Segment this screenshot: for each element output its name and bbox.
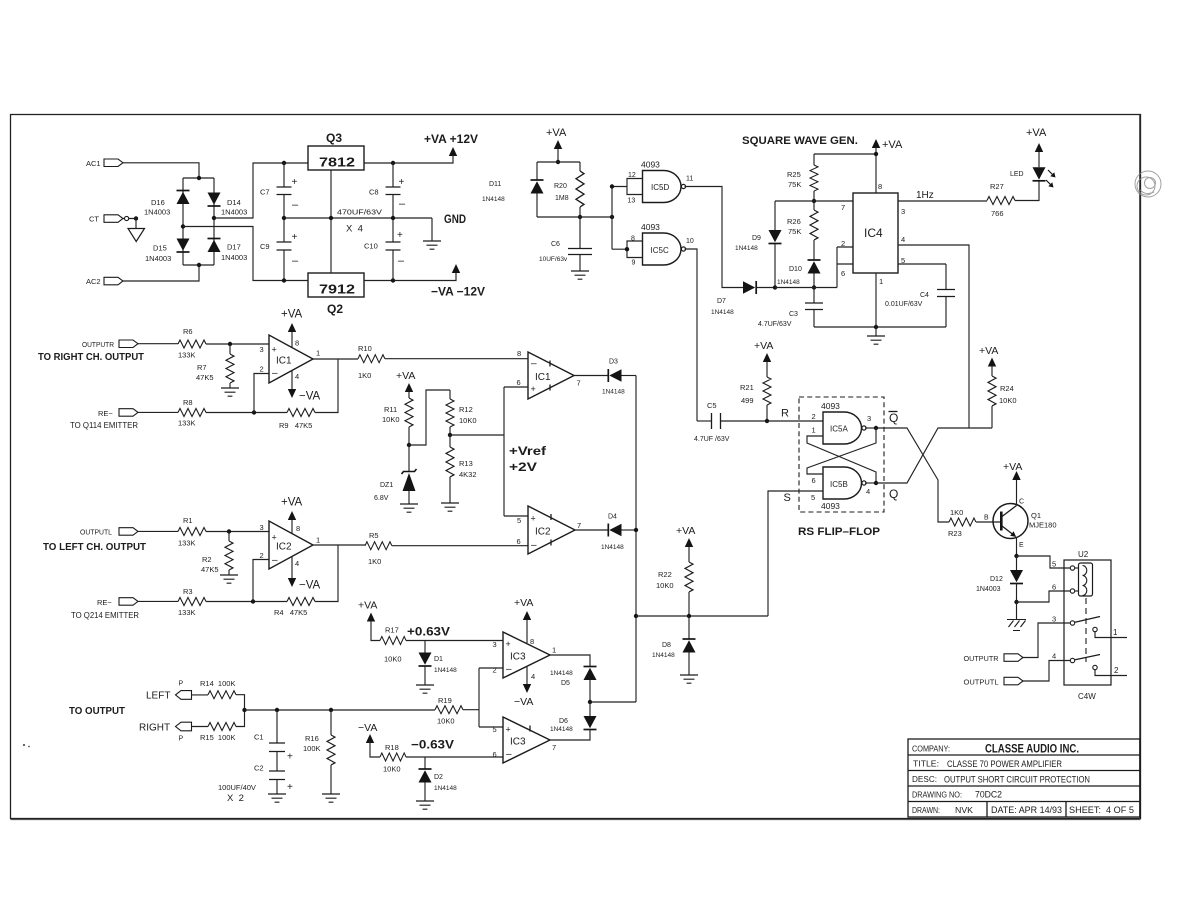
ground D1 <box>416 685 434 693</box>
svg-text:10K0: 10K0 <box>437 717 455 726</box>
svg-text:10K0: 10K0 <box>382 415 400 424</box>
svg-text:D16: D16 <box>151 198 165 207</box>
svg-text:2: 2 <box>812 412 816 421</box>
svg-text:10K0: 10K0 <box>999 396 1017 405</box>
node pin2 branch <box>252 410 256 414</box>
diode D4 1N4148 <box>575 514 636 552</box>
node C8 top <box>391 161 395 165</box>
resistor R17 10K0 <box>380 626 406 664</box>
diode D11 1N4148 <box>482 162 544 217</box>
power -VA (R18) <box>358 722 380 757</box>
resistor R7 47K5 <box>196 344 234 388</box>
svg-text:1N4003: 1N4003 <box>221 208 247 217</box>
svg-text:IC3: IC3 <box>510 652 526 663</box>
capacitor C1 <box>254 710 293 763</box>
svg-text:−VA: −VA <box>299 391 321 403</box>
node mid rail C8 <box>391 216 395 220</box>
svg-text:R5: R5 <box>369 531 379 540</box>
svg-text:+VA: +VA <box>358 600 377 612</box>
svg-text:7: 7 <box>841 203 845 212</box>
svg-text:LEFT: LEFT <box>146 691 170 702</box>
resistor R2 47K5 <box>201 532 233 576</box>
svg-text:IC2: IC2 <box>535 527 551 538</box>
wire D12 node to relay pin6 <box>1017 591 1071 602</box>
svg-text:+: + <box>506 725 511 735</box>
svg-text:D4: D4 <box>608 514 617 521</box>
connector OUTPUTR <box>82 340 138 349</box>
power -VA -12V <box>431 264 485 299</box>
svg-text:+VA +12V: +VA +12V <box>424 132 478 146</box>
svg-text:R6: R6 <box>183 327 193 336</box>
resistor R10 1K0 <box>358 344 385 380</box>
wire bridge- to 7912 <box>183 227 308 281</box>
svg-text:D15: D15 <box>153 244 167 253</box>
svg-text:75K: 75K <box>788 180 801 189</box>
svg-text:+: + <box>292 177 298 188</box>
resistor R27 766 <box>987 182 1015 218</box>
svg-text:4: 4 <box>295 559 299 568</box>
svg-text:R7: R7 <box>197 363 207 372</box>
svg-text:1N4003: 1N4003 <box>976 586 1001 593</box>
wire comparator OR rail <box>635 376 637 703</box>
svg-text:IC5B: IC5B <box>830 480 848 489</box>
svg-text:SQUARE WAVE GEN.: SQUARE WAVE GEN. <box>742 135 858 147</box>
svg-text:−VA: −VA <box>299 580 321 592</box>
IC4 box <box>853 182 898 286</box>
svg-text:+: + <box>397 230 403 241</box>
svg-text:+: + <box>287 782 293 793</box>
diode D14 1N4003 <box>208 193 248 217</box>
power +VA (IC4 pin8) <box>872 139 903 193</box>
node D7/D9 <box>773 285 777 289</box>
ground R16 <box>322 794 340 802</box>
svg-text:7812: 7812 <box>319 155 355 170</box>
svg-text:Q3: Q3 <box>326 131 342 145</box>
svg-text:11: 11 <box>686 176 693 183</box>
power +VA (IC2) <box>281 497 303 534</box>
svg-text:R1: R1 <box>183 516 193 525</box>
wire emitter to relay pin5 <box>1017 556 1071 568</box>
wire CT <box>123 218 136 220</box>
svg-text:C4W: C4W <box>1078 692 1096 701</box>
capacitor C6 <box>539 217 592 271</box>
svg-text:–: – <box>292 199 299 211</box>
capacitor C7 <box>260 163 299 218</box>
svg-text:R21: R21 <box>740 383 754 392</box>
wire comparator rail to S <box>636 615 768 617</box>
relay coil <box>1079 563 1093 596</box>
power +VA (R17) <box>358 600 380 641</box>
svg-text:1K0: 1K0 <box>358 371 371 380</box>
svg-text:X 4: X 4 <box>346 224 363 235</box>
svg-text:R14 100K: R14 100K <box>200 679 235 688</box>
svg-text:1N4148: 1N4148 <box>550 726 573 733</box>
op-amp IC3 (top) <box>493 632 557 681</box>
svg-text:4.7UF /63V: 4.7UF /63V <box>694 436 730 443</box>
svg-text:C9: C9 <box>260 242 270 251</box>
svg-text:P: P <box>179 736 184 743</box>
svg-text:R3: R3 <box>183 587 193 596</box>
svg-text:IC5C: IC5C <box>651 246 669 255</box>
svg-text:+VA: +VA <box>546 127 567 139</box>
svg-text:+VA: +VA <box>1003 461 1022 473</box>
capacitor C4 0.01UF/63V <box>885 264 955 327</box>
svg-text:IC4: IC4 <box>864 226 883 240</box>
ground C2 <box>268 794 286 802</box>
svg-text:75K: 75K <box>788 227 801 236</box>
node rail/R22 rail <box>634 614 638 618</box>
svg-text:133K: 133K <box>178 351 196 360</box>
regulator Q2 7912 <box>308 273 364 316</box>
power +VA (IC3) <box>514 597 533 643</box>
wire IC4 pin4 <box>898 245 969 428</box>
svg-text:DZ1: DZ1 <box>380 482 393 489</box>
node mid rail reg pin <box>329 216 333 220</box>
svg-text:1N4003: 1N4003 <box>145 254 171 263</box>
svg-text:NVK: NVK <box>955 806 974 815</box>
diode D10 1N4148 <box>777 260 821 288</box>
svg-text:MJE180: MJE180 <box>1029 521 1057 530</box>
diode D1 1N4148 <box>419 641 458 686</box>
wire D11/R20 bottom <box>537 216 612 218</box>
wire IC5B output <box>865 482 876 484</box>
svg-text:TO Q114 EMITTER: TO Q114 EMITTER <box>70 421 138 430</box>
diode D2 1N4148 <box>419 757 458 801</box>
node bridge left mid <box>181 224 185 228</box>
svg-text:Q1: Q1 <box>1031 511 1041 520</box>
svg-text:+VA: +VA <box>281 497 303 509</box>
wire R17 to IC3 pin3 <box>406 640 503 642</box>
svg-text:D5: D5 <box>561 680 570 687</box>
svg-text:Q: Q <box>889 411 898 425</box>
svg-text:1N4003: 1N4003 <box>221 253 247 262</box>
svg-text:C10: C10 <box>364 242 378 251</box>
svg-text:133K: 133K <box>178 608 196 617</box>
svg-text:10K0: 10K0 <box>656 581 674 590</box>
svg-text:Q2: Q2 <box>327 302 343 316</box>
svg-text:R17: R17 <box>385 626 399 635</box>
svg-text:1N4148: 1N4148 <box>601 544 624 551</box>
capacitor C5 4.7UF/63V <box>694 401 767 443</box>
LED <box>1010 152 1046 181</box>
svg-text:C3: C3 <box>789 311 798 318</box>
svg-text:4: 4 <box>295 372 299 381</box>
svg-text:133K: 133K <box>178 419 196 428</box>
svg-text:–: – <box>506 749 512 760</box>
svg-text:D7: D7 <box>717 298 726 305</box>
RS flip-flop dashed box <box>799 397 884 512</box>
svg-text:2: 2 <box>260 365 264 374</box>
svg-text:3: 3 <box>867 414 871 423</box>
svg-text:+VA: +VA <box>514 597 533 609</box>
relay pin 5 <box>1052 560 1079 571</box>
svg-text:DRAWN:: DRAWN: <box>912 806 940 815</box>
svg-text:+: + <box>399 177 405 188</box>
zener DZ1 6.8V <box>374 445 417 504</box>
diode D5 1N4148 <box>550 655 597 702</box>
node R11/DZ1 <box>407 443 411 447</box>
resistor R11 10K0 <box>382 398 413 445</box>
capacitor C8 <box>369 163 406 218</box>
svg-text:1N4148: 1N4148 <box>550 670 573 677</box>
power -VA (IC3) <box>514 667 533 708</box>
svg-text:E: E <box>1019 542 1024 549</box>
svg-text:C5: C5 <box>707 401 717 410</box>
svg-text:C: C <box>1019 499 1024 506</box>
svg-text:RE−: RE− <box>97 598 112 607</box>
resistor R23 1K0 <box>948 508 976 538</box>
node pin1 gnd <box>874 325 878 329</box>
svg-text:10K0: 10K0 <box>459 416 477 425</box>
svg-text:5: 5 <box>811 493 815 502</box>
svg-text:1: 1 <box>316 349 320 358</box>
svg-text:4: 4 <box>531 672 535 681</box>
label Qbar <box>889 411 899 425</box>
wire Vref to comparators <box>450 387 528 516</box>
svg-text:TO OUTPUT: TO OUTPUT <box>69 706 125 717</box>
svg-text:D11: D11 <box>489 181 501 188</box>
resistor R24 10K0 <box>988 366 1017 406</box>
wire R1 to IC2 pin3 <box>206 531 269 533</box>
svg-text:AC1: AC1 <box>86 159 101 168</box>
regulator Q3 7812 <box>308 131 364 170</box>
svg-text:133K: 133K <box>178 539 196 548</box>
diode D17 1N4003 <box>208 239 248 263</box>
diode D12 1N4003 <box>976 556 1023 602</box>
svg-text:100UF/40V: 100UF/40V <box>218 783 256 792</box>
node +VA pin8 <box>874 152 878 156</box>
resistor R15 100K <box>192 723 237 743</box>
wire IC4 pin5 <box>898 263 946 265</box>
svg-text:–: – <box>506 664 512 675</box>
svg-text:4: 4 <box>1052 652 1056 661</box>
ground R13 <box>441 503 459 511</box>
wire RE- to R8 <box>138 411 178 413</box>
wire bridge right rail <box>213 178 215 265</box>
svg-text:1N4148: 1N4148 <box>735 245 758 252</box>
svg-text:1N4148: 1N4148 <box>434 785 457 792</box>
scan smudge <box>1135 171 1161 197</box>
connector RE- (left) <box>97 598 138 607</box>
svg-text:6.8V: 6.8V <box>374 495 389 502</box>
svg-text:8: 8 <box>517 349 521 358</box>
svg-text:4093: 4093 <box>821 401 840 411</box>
svg-text:47K5: 47K5 <box>196 373 214 382</box>
resistor R16 100K <box>303 710 335 794</box>
wire CT to chassis <box>135 219 137 229</box>
svg-text:R10: R10 <box>358 344 372 353</box>
svg-text:1: 1 <box>812 426 816 435</box>
resistor R4 47K5 <box>274 598 315 618</box>
svg-text:R23: R23 <box>948 529 962 538</box>
svg-text:6: 6 <box>493 750 497 759</box>
resistor R22 10K0 <box>656 562 693 616</box>
svg-text:2: 2 <box>493 666 497 675</box>
capacitor C3 4.7UF/63V <box>758 288 823 329</box>
svg-text:D3: D3 <box>609 359 618 366</box>
wire bridge+ to 7812 <box>214 163 308 218</box>
resistor R14 100K <box>192 679 237 699</box>
node bridge top <box>197 176 201 180</box>
wire R input <box>767 420 823 422</box>
wire R14 to node <box>236 695 245 710</box>
relay U2 box <box>1064 550 1111 701</box>
wire bridge left rail <box>182 178 184 265</box>
node R16 <box>329 708 333 712</box>
svg-text:D14: D14 <box>227 198 241 207</box>
ground R2 <box>220 575 238 583</box>
wire regulators middle pin <box>330 170 332 273</box>
wire R18 to IC3 pin6 <box>406 756 503 758</box>
svg-text:5: 5 <box>1052 560 1056 569</box>
svg-text:+VA: +VA <box>754 340 773 352</box>
svg-text:+VA: +VA <box>396 370 415 382</box>
wire OUTPUTL to R1 <box>138 530 178 532</box>
svg-text:–: – <box>399 198 406 210</box>
resistor R18 10K0 <box>380 743 406 774</box>
wire IC5B pin6 cross <box>807 428 876 474</box>
power -VA (IC2) <box>288 557 321 592</box>
svg-text:1Hz: 1Hz <box>916 190 934 201</box>
node D12 bottom <box>1014 600 1018 604</box>
resistor R21 499 <box>740 377 771 421</box>
svg-text:3: 3 <box>1052 615 1056 624</box>
svg-text:R22: R22 <box>658 570 672 579</box>
op-amp IC3 (bottom) <box>493 717 557 763</box>
svg-text:+: + <box>506 639 511 649</box>
chassis ground (open triangle) <box>128 229 145 242</box>
svg-text:2: 2 <box>841 239 845 248</box>
wire AC2 to bridge <box>123 265 199 281</box>
svg-text:–: – <box>272 368 278 379</box>
ground R7 <box>221 388 239 396</box>
connector AC1 <box>86 159 123 168</box>
wire R19 to comparator inputs <box>463 668 503 727</box>
svg-text:D1: D1 <box>434 656 443 663</box>
svg-text:7: 7 <box>552 743 556 752</box>
svg-text:RS FLIP–FLOP: RS FLIP–FLOP <box>798 526 880 538</box>
svg-text:100K: 100K <box>303 744 321 753</box>
svg-text:R15 100K: R15 100K <box>200 733 235 742</box>
op-amp IC2 <box>260 521 321 569</box>
svg-text:C6: C6 <box>551 241 560 248</box>
relay blade 4 <box>1075 655 1100 660</box>
resistor R5 1K0 <box>365 531 392 566</box>
diode D6 1N4148 <box>550 702 597 740</box>
svg-text:+2V: +2V <box>509 460 537 474</box>
svg-text:5: 5 <box>493 725 497 734</box>
svg-text:C7: C7 <box>260 188 270 197</box>
LED light arrows <box>1046 170 1056 188</box>
wire sense rail <box>245 709 436 711</box>
svg-text:1N4148: 1N4148 <box>434 667 457 674</box>
node sense <box>242 708 246 712</box>
node C7 top <box>282 161 286 165</box>
svg-text:+: + <box>531 514 536 524</box>
svg-text:47K5: 47K5 <box>201 565 219 574</box>
svg-text:IC5A: IC5A <box>830 425 848 434</box>
resistor R6 133K <box>178 327 206 360</box>
svg-text:D10: D10 <box>789 266 802 273</box>
svg-text:8: 8 <box>296 524 300 533</box>
wire collector <box>1016 479 1018 506</box>
svg-text:7: 7 <box>577 521 581 530</box>
svg-text:+VA: +VA <box>1026 127 1047 139</box>
svg-text:10UF/63v: 10UF/63v <box>539 256 568 263</box>
svg-text:C2: C2 <box>254 764 264 773</box>
ground DZ1 <box>400 504 418 512</box>
svg-text:R: R <box>781 408 789 420</box>
svg-text:+: + <box>287 752 293 763</box>
svg-text:DRAWING NO:: DRAWING NO: <box>912 791 962 800</box>
svg-text:+VA: +VA <box>979 345 998 357</box>
svg-text:AC2: AC2 <box>86 277 101 286</box>
connector RE- (right) <box>98 409 138 418</box>
node D4 rail <box>634 528 638 532</box>
wire RE- to R3 <box>138 600 178 602</box>
wire D5/D6 node to rail <box>590 701 636 703</box>
svg-text:6: 6 <box>841 269 845 278</box>
svg-text:GND: GND <box>444 212 466 226</box>
node R2 <box>227 529 231 533</box>
svg-text:1N4148: 1N4148 <box>602 389 625 396</box>
ground IC4 <box>867 336 885 344</box>
node R22/D8 <box>687 614 691 618</box>
svg-text:R4 47K5: R4 47K5 <box>274 608 307 617</box>
nand gate IC5D 4093 <box>628 160 694 205</box>
svg-text:4K32: 4K32 <box>459 470 477 479</box>
svg-text:–: – <box>398 255 405 267</box>
wire to IC1 pin2 <box>254 374 269 413</box>
svg-text:6: 6 <box>1052 583 1056 592</box>
svg-text:+VA: +VA <box>882 139 903 151</box>
svg-text:−VA: −VA <box>358 722 377 734</box>
svg-text:COMPANY:: COMPANY: <box>912 745 950 754</box>
connector OUTPUTL <box>80 528 138 537</box>
svg-text:R13: R13 <box>459 459 473 468</box>
svg-text:+: + <box>292 232 298 243</box>
svg-text:5: 5 <box>901 256 905 265</box>
resistor R3 133K <box>178 587 206 617</box>
node R7 <box>228 342 232 346</box>
resistor R1 133K <box>178 516 206 548</box>
wire IC5C output <box>685 249 698 421</box>
svg-text:–: – <box>531 540 537 551</box>
svg-text:RIGHT: RIGHT <box>139 722 170 733</box>
node C7/C9 mid <box>282 216 286 220</box>
node C10 bottom <box>391 278 395 282</box>
svg-text:CLASSE AUDIO INC.: CLASSE AUDIO INC. <box>985 744 1079 756</box>
node IC5D input <box>610 184 614 188</box>
svg-text:6: 6 <box>812 476 816 485</box>
wire emitter <box>1016 537 1018 556</box>
svg-text:−0.63V: −0.63V <box>411 738 454 752</box>
power +VA (IC1) <box>288 323 296 347</box>
svg-text:D9: D9 <box>752 235 761 242</box>
resistor R9 47K5 <box>279 409 315 431</box>
node +VA R20 <box>556 160 560 164</box>
wire D12 to ground <box>1016 602 1018 619</box>
svg-text:+: + <box>272 345 277 355</box>
wire 7912 output <box>364 273 456 281</box>
wire 7812 output <box>364 156 453 164</box>
wire R9 feedback <box>315 359 338 413</box>
svg-text:8: 8 <box>530 637 534 646</box>
wire ground mid rail <box>284 217 432 219</box>
relay contact 2 <box>1093 665 1127 675</box>
svg-text:10: 10 <box>686 238 694 245</box>
svg-text:470UF/63V: 470UF/63V <box>337 210 382 217</box>
